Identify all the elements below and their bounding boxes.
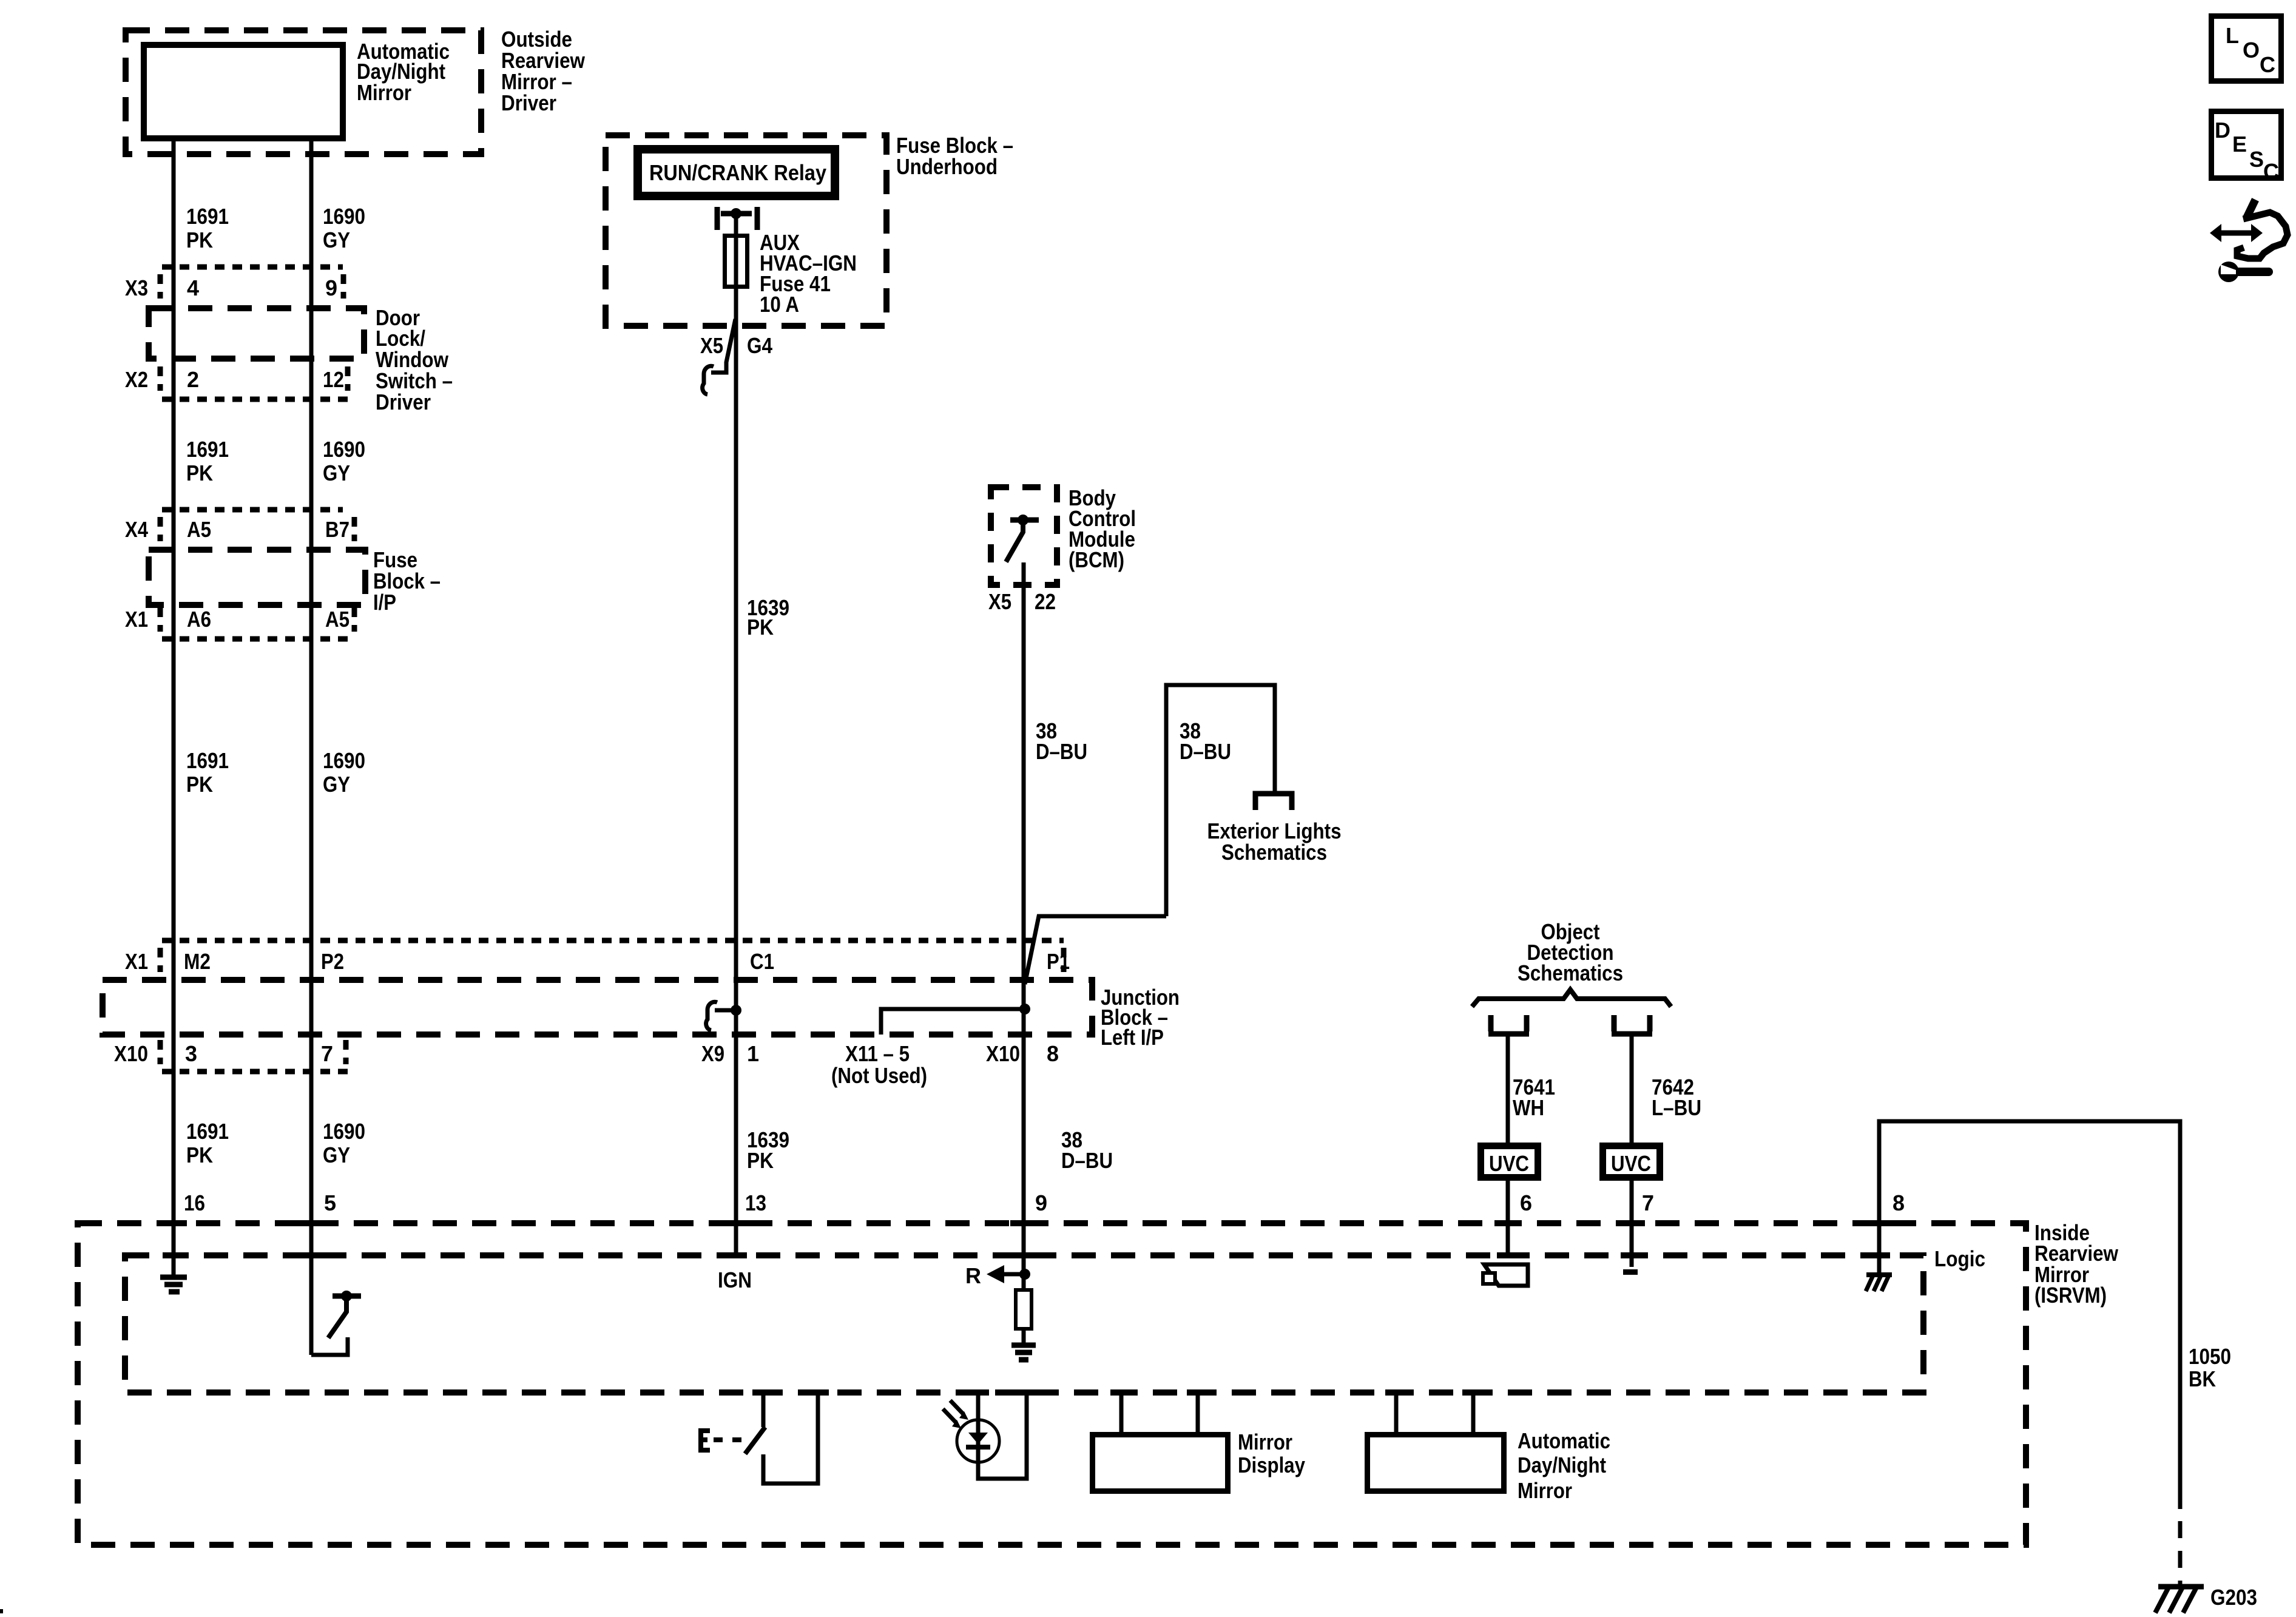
svg-text:1691: 1691 <box>186 1119 229 1144</box>
svg-text:BK: BK <box>2189 1366 2216 1391</box>
svg-text:UVC: UVC <box>1489 1151 1529 1176</box>
svg-text:1: 1 <box>747 1041 759 1066</box>
svg-text:PK: PK <box>186 228 213 252</box>
svg-text:3: 3 <box>185 1041 197 1066</box>
svg-text:Day/Night: Day/Night <box>1518 1453 1606 1477</box>
svg-text:R: R <box>965 1263 981 1288</box>
svg-text:Display: Display <box>1238 1453 1305 1477</box>
svg-text:L: L <box>2226 23 2239 48</box>
svg-text:D: D <box>2215 118 2230 143</box>
svg-text:16: 16 <box>184 1190 205 1215</box>
svg-text:(Not Used): (Not Used) <box>831 1063 927 1088</box>
svg-text:7: 7 <box>321 1041 333 1066</box>
svg-text:13: 13 <box>745 1190 766 1215</box>
svg-text:9: 9 <box>325 275 337 300</box>
svg-text:C1: C1 <box>750 949 774 974</box>
svg-text:GY: GY <box>323 461 350 485</box>
svg-text:GY: GY <box>323 1143 350 1167</box>
svg-text:RUN/CRANK Relay: RUN/CRANK Relay <box>649 160 826 185</box>
svg-text:Schematics: Schematics <box>1221 840 1327 865</box>
svg-text:2: 2 <box>187 367 199 392</box>
svg-text:E: E <box>2232 132 2247 157</box>
svg-text:S: S <box>2249 147 2264 172</box>
svg-text:Driver: Driver <box>501 90 556 115</box>
svg-text:22: 22 <box>1035 589 1056 614</box>
svg-text:1691: 1691 <box>186 437 229 462</box>
svg-text:1690: 1690 <box>323 204 365 229</box>
svg-text:1690: 1690 <box>323 748 365 773</box>
svg-text:Left I/P: Left I/P <box>1101 1025 1164 1050</box>
svg-text:X10: X10 <box>114 1041 148 1066</box>
svg-text:O: O <box>2243 38 2260 62</box>
svg-text:PK: PK <box>747 1148 774 1173</box>
svg-text:X10: X10 <box>986 1041 1020 1066</box>
svg-text:Mirror: Mirror <box>357 80 411 105</box>
svg-text:5: 5 <box>324 1190 336 1215</box>
svg-text:G4: G4 <box>747 333 772 358</box>
svg-text:C: C <box>2260 52 2275 77</box>
svg-text:PK: PK <box>186 772 213 797</box>
svg-text:A5: A5 <box>325 607 349 632</box>
svg-text:X5: X5 <box>700 333 723 358</box>
svg-text:X3: X3 <box>125 275 148 300</box>
svg-text:GY: GY <box>323 228 350 252</box>
svg-text:Schematics: Schematics <box>1518 960 1623 985</box>
svg-text:P1: P1 <box>1047 949 1070 974</box>
svg-text:D–BU: D–BU <box>1036 739 1087 764</box>
svg-text:1691: 1691 <box>186 748 229 773</box>
svg-text:G203: G203 <box>2210 1585 2257 1610</box>
svg-text:M2: M2 <box>184 949 211 974</box>
svg-text:Driver: Driver <box>376 390 431 414</box>
svg-text:I/P: I/P <box>373 590 396 615</box>
svg-text:12: 12 <box>323 367 344 392</box>
svg-text:WH: WH <box>1513 1095 1544 1120</box>
svg-text:(ISRVM): (ISRVM) <box>2034 1283 2107 1308</box>
svg-text:1691: 1691 <box>186 204 229 229</box>
svg-text:X1: X1 <box>125 949 148 974</box>
svg-text:C: C <box>2263 159 2279 184</box>
svg-text:(BCM): (BCM) <box>1069 547 1124 572</box>
svg-text:D–BU: D–BU <box>1180 739 1231 764</box>
svg-text:Logic: Logic <box>1934 1246 1985 1271</box>
svg-text:6: 6 <box>1520 1190 1532 1215</box>
svg-text:Mirror: Mirror <box>1238 1430 1292 1454</box>
svg-text:4: 4 <box>187 275 199 300</box>
svg-text:X5: X5 <box>988 589 1011 614</box>
svg-text:8: 8 <box>1893 1190 1905 1215</box>
svg-text:A6: A6 <box>187 607 211 632</box>
svg-text:10 A: 10 A <box>760 292 799 317</box>
svg-text:Underhood: Underhood <box>896 154 998 179</box>
svg-text:PK: PK <box>747 615 774 640</box>
svg-text:X2: X2 <box>125 367 148 392</box>
svg-text:L–BU: L–BU <box>1652 1095 1701 1120</box>
svg-text:PK: PK <box>186 1143 213 1167</box>
svg-text:UVC: UVC <box>1611 1151 1651 1176</box>
svg-text:PK: PK <box>186 461 213 485</box>
svg-text:B7: B7 <box>325 517 349 542</box>
svg-text:A5: A5 <box>187 517 211 542</box>
svg-text:P2: P2 <box>321 949 344 974</box>
svg-text:X1: X1 <box>125 607 148 632</box>
svg-text:7: 7 <box>1642 1190 1654 1215</box>
svg-text:8: 8 <box>1047 1041 1059 1066</box>
svg-text:IGN: IGN <box>718 1268 752 1292</box>
svg-text:Mirror: Mirror <box>1518 1478 1572 1503</box>
svg-text:GY: GY <box>323 772 350 797</box>
svg-text:X9: X9 <box>701 1041 724 1066</box>
svg-text:X4: X4 <box>125 517 148 542</box>
svg-text:Automatic: Automatic <box>1518 1428 1610 1453</box>
svg-text:1690: 1690 <box>323 437 365 462</box>
svg-text:1690: 1690 <box>323 1119 365 1144</box>
svg-text:1050: 1050 <box>2189 1344 2231 1369</box>
svg-text:D–BU: D–BU <box>1061 1148 1113 1173</box>
svg-text:9: 9 <box>1035 1190 1047 1215</box>
svg-text:X11 – 5: X11 – 5 <box>845 1041 910 1066</box>
